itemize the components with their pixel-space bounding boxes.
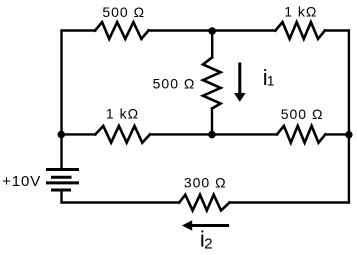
svg-text:500 Ω: 500 Ω	[102, 4, 145, 20]
svg-text:1 kΩ: 1 kΩ	[106, 106, 139, 122]
svg-text:2: 2	[204, 235, 212, 252]
svg-text:+10V: +10V	[2, 173, 41, 190]
svg-text:500 Ω: 500 Ω	[281, 106, 324, 122]
svg-text:300 Ω: 300 Ω	[184, 175, 227, 191]
svg-text:500 Ω: 500 Ω	[153, 75, 196, 91]
svg-text:1: 1	[267, 73, 275, 89]
svg-text:1 kΩ: 1 kΩ	[284, 4, 317, 20]
